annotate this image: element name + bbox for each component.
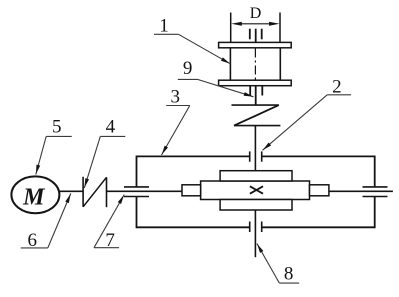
right hub on shaft [310,185,329,196]
svg-text:3: 3 [170,87,180,108]
left wall bearing lower line [124,196,149,198]
svg-text:9: 9 [183,58,193,79]
svg-text:8: 8 [284,264,294,285]
motor shaft [59,190,83,192]
top wall bearing left tick [249,151,251,161]
coupling 4 diagonal [83,177,106,207]
drum 1 left wall [229,48,231,80]
right wall bearing upper line [363,186,388,188]
dimension line D [240,23,271,25]
svg-text:D: D [250,5,262,22]
worm gear upper rim [220,171,292,181]
svg-text:5: 5 [52,117,62,138]
coupling 4 right half [106,177,108,207]
label 3 [162,87,190,156]
left hub on shaft [182,185,201,196]
svg-text:M: M [22,184,46,210]
elastic element zigzag top line [232,104,279,106]
top wall bearing right tick [261,151,263,161]
drum 1 bottom flange [219,80,292,86]
upper bearing left tick [249,29,251,40]
bottom wall bearing left tick [249,222,251,233]
left wall bearing upper line [124,186,149,188]
gearbox housing top wall [137,155,375,157]
dimension arrow left [231,22,242,26]
motor M [11,176,59,213]
label 9 [178,58,254,97]
elastic element zigzag diagonal [234,105,279,126]
worm gear main block [201,181,310,200]
lower bearing shaft stub below drum [255,86,257,105]
coupling 4 left half [82,177,84,207]
label 8 [257,244,299,285]
label 1 [154,16,230,64]
gearbox housing bottom wall [137,226,375,228]
drum 1 top flange [219,42,292,47]
label 5 [36,117,72,175]
label 4 [84,117,125,188]
lower bearing right tick [261,86,263,96]
output shaft bottom [254,210,256,257]
upper bearing shaft stub above drum [255,29,257,43]
label 6 [21,193,71,251]
dimension extension line right [279,13,281,43]
drum centerline [254,49,256,81]
worm gear lower rim [220,200,292,211]
drum 1 right wall [279,48,281,80]
svg-text:4: 4 [106,117,116,138]
gear mesh cross mark [250,186,263,193]
bottom wall bearing right tick [261,222,263,233]
vertical shaft zigzag to gear [254,126,256,171]
dimension extension line left [230,13,232,43]
svg-text:1: 1 [159,16,169,37]
elastic element zigzag bottom line [234,125,280,127]
upper bearing right tick [261,29,263,40]
gearbox housing right wall [374,156,376,229]
label 7 [94,195,124,252]
input shaft coupling to gearbox [107,190,183,192]
lower bearing left tick [249,86,251,96]
label 2 [263,77,352,151]
output shaft stub right side [329,190,393,192]
right wall bearing lower line [363,196,388,198]
gearbox housing left wall [136,156,138,229]
dimension arrow right [269,22,280,26]
